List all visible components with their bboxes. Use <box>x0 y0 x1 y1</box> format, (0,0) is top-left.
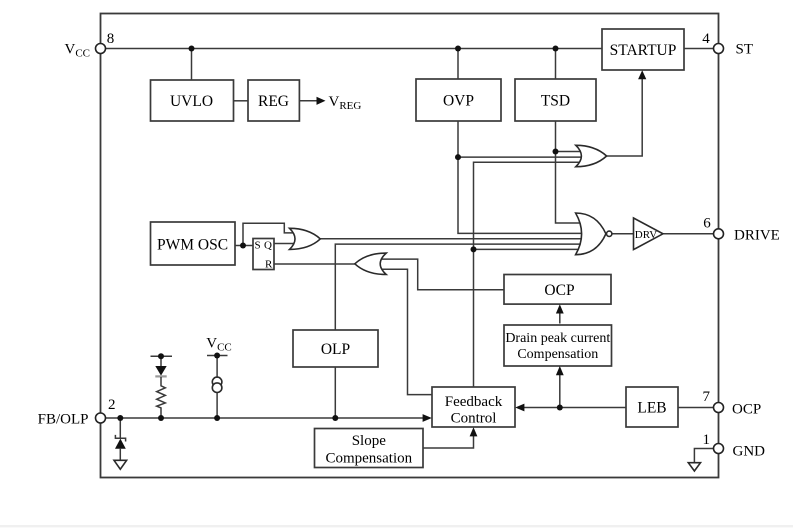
wire TSD branch to OR1 <box>556 151 585 153</box>
pin 8 <box>64 31 114 60</box>
svg-text:OLP: OLP <box>321 341 350 358</box>
svg-text:4: 4 <box>702 31 710 47</box>
svg-text:LEB: LEB <box>637 400 666 417</box>
wire PWM OSC to latch S <box>235 245 253 247</box>
svg-text:UVLO: UVLO <box>170 93 213 110</box>
junction dot FC-NOR <box>471 246 477 252</box>
svg-text:DRV: DRV <box>635 229 657 241</box>
or-gate U5 (reset OR, mirrored) <box>355 253 386 274</box>
block REG <box>248 80 299 121</box>
svg-text:STARTUP: STARTUP <box>610 42 677 59</box>
arrowhead into FC right <box>515 404 524 412</box>
wire OVP branch to OR1 <box>458 156 584 158</box>
block LEB <box>626 387 678 427</box>
wire current source to FB line <box>216 392 218 418</box>
wire TSD down to NOR <box>556 121 583 223</box>
block OVP <box>416 79 501 121</box>
zener diode D1 <box>115 435 126 460</box>
diode D2 <box>155 366 166 376</box>
arrowhead into FC bottom <box>470 427 478 436</box>
block OLP <box>293 330 378 367</box>
wire LEB to FC <box>519 407 627 409</box>
svg-text:Q: Q <box>264 240 272 252</box>
junction dot OVP-OR <box>455 154 461 160</box>
rail stub VCC source <box>207 355 228 357</box>
IC outline border <box>101 14 719 478</box>
block Slope Compensation <box>315 429 424 468</box>
block Feedback Control <box>432 387 515 427</box>
svg-text:PWM OSC: PWM OSC <box>157 237 228 254</box>
current source I1 <box>212 377 222 392</box>
pin 4 <box>702 31 753 58</box>
pin 2 <box>38 397 116 428</box>
wire PWM over top to latch OR <box>243 223 298 245</box>
wire mirror OR output to latch R <box>274 263 355 265</box>
ground arrow pin1 <box>688 463 700 471</box>
wire FC branch to NOR <box>474 248 587 250</box>
junction dot FB-OLP <box>332 415 338 421</box>
wire latch Q to OR <box>274 243 300 245</box>
svg-text:VCC: VCC <box>206 336 232 354</box>
junction dot FB-source <box>214 415 220 421</box>
wire OVP down to NOR <box>458 121 588 233</box>
wire rail to current source <box>216 356 218 378</box>
latch U6 <box>253 239 274 271</box>
block Drain peak current Compensation <box>504 325 612 366</box>
wire REG output <box>299 100 317 102</box>
pin 1 <box>703 432 766 460</box>
svg-text:8: 8 <box>107 31 115 47</box>
rail stub above diode <box>151 355 173 357</box>
resistor R1 <box>157 377 166 418</box>
junction dot VCC-TSD <box>553 46 559 52</box>
junction dot VCC-OVP <box>455 46 461 52</box>
wire OLP down to FB line <box>334 367 336 418</box>
or-gate U2 (startup OR) <box>576 145 607 166</box>
junction dot FB-resistor <box>158 415 164 421</box>
svg-text:GND: GND <box>733 444 766 460</box>
arrowhead into Drain comp <box>556 366 564 375</box>
block PWM OSC <box>151 222 236 265</box>
svg-text:Compensation: Compensation <box>325 451 412 467</box>
junction dot rail-source <box>214 353 220 359</box>
pin 7 <box>703 389 762 418</box>
or-gate U4 (latch OR) <box>290 228 321 249</box>
wire STARTUP to pin4 <box>684 48 719 50</box>
svg-text:Slope: Slope <box>352 433 387 449</box>
block TSD <box>515 79 596 121</box>
svg-text:Drain peak current: Drain peak current <box>505 331 610 346</box>
wire OCP output to mirror OR <box>375 259 504 290</box>
junction dot LEB-Drain <box>557 405 563 411</box>
arrowhead REG output <box>317 97 326 105</box>
arrowhead into FC left <box>423 414 432 422</box>
svg-text:7: 7 <box>703 389 711 405</box>
svg-text:Control: Control <box>451 411 497 427</box>
nor-gate U3 (drive NOR) <box>576 213 606 255</box>
wire OR1 output to STARTUP <box>607 74 643 156</box>
wire UVLO drop <box>191 49 193 81</box>
svg-text:S: S <box>255 240 261 252</box>
wire FC up to mirror OR <box>375 269 432 394</box>
wire FB OLP line <box>101 417 429 419</box>
svg-text:ST: ST <box>736 42 754 58</box>
svg-text:FB/OLP: FB/OLP <box>38 412 89 428</box>
faint page rule <box>0 525 793 527</box>
svg-text:OCP: OCP <box>732 402 761 418</box>
svg-text:VREG: VREG <box>329 94 362 112</box>
wire zener branch <box>119 418 121 438</box>
svg-text:R: R <box>265 259 273 271</box>
block UVLO <box>151 80 234 121</box>
svg-text:Feedback: Feedback <box>445 394 503 410</box>
wire LEB to pin7 <box>678 407 719 409</box>
wire OVP drop <box>457 49 459 80</box>
wire TSD drop <box>555 49 557 80</box>
wire rail to diode <box>160 356 162 366</box>
junction dot rail-diode <box>158 353 164 359</box>
pin 6 <box>703 216 780 244</box>
wire FC feedback up to OR1 <box>474 162 585 387</box>
wire UVLO to REG <box>234 100 249 102</box>
arrowhead into STARTUP <box>638 70 646 79</box>
junction dot FB-zener <box>117 415 123 421</box>
svg-text:1: 1 <box>703 432 711 448</box>
wire latch OR output to NOR <box>321 238 589 240</box>
arrowhead into OCP <box>556 304 564 313</box>
junction dot PWM-latch <box>240 243 246 249</box>
wire slope comp to FC <box>423 431 474 448</box>
svg-text:TSD: TSD <box>541 93 570 110</box>
wire pin1 to ground <box>694 449 718 463</box>
wire NOR output to DRV <box>612 233 634 235</box>
wire DRV to pin6 <box>663 233 719 235</box>
ground arrow below zener <box>114 460 127 469</box>
svg-text:VCC: VCC <box>64 42 90 60</box>
svg-text:6: 6 <box>703 216 711 232</box>
buffer DRV <box>634 218 664 250</box>
block STARTUP <box>602 29 684 70</box>
svg-text:2: 2 <box>108 397 116 413</box>
wire OLP up to NOR <box>335 244 588 330</box>
svg-text:OVP: OVP <box>443 93 474 110</box>
junction dot TSD-OR <box>553 149 559 155</box>
wire OCP arrow from Drain comp <box>559 307 561 324</box>
block OCP <box>504 275 611 305</box>
svg-text:OCP: OCP <box>544 282 574 299</box>
wire Drain comp arrow from LEB line <box>559 369 561 408</box>
svg-text:REG: REG <box>258 93 289 110</box>
nor bubble <box>607 231 612 236</box>
svg-text:DRIVE: DRIVE <box>734 228 780 244</box>
junction dot VCC-UVLO <box>189 46 195 52</box>
svg-text:Compensation: Compensation <box>517 347 598 362</box>
wire VCC rail <box>101 48 603 50</box>
